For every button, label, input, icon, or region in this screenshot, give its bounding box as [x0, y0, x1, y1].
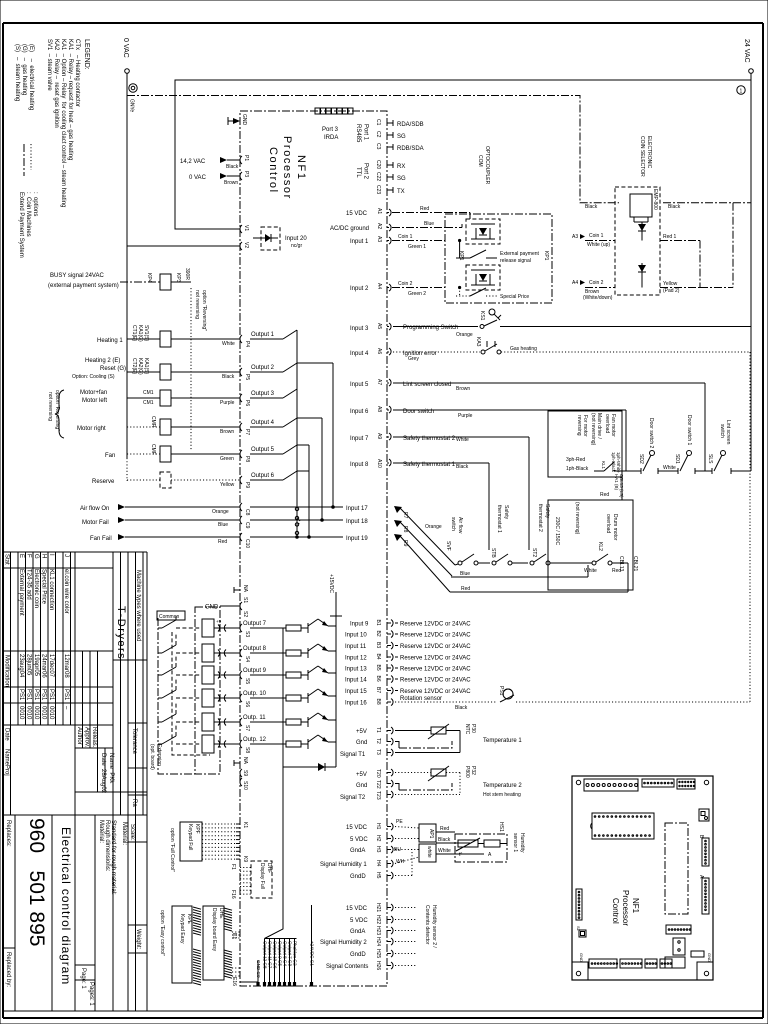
svg-text:ELECTRONIC: ELECTRONIC [646, 136, 652, 169]
svg-text:Red: Red [461, 586, 470, 592]
svg-text:15 VDC: 15 VDC [346, 906, 368, 912]
svg-text:White (up): White (up) [587, 242, 610, 248]
svg-text:Blue: Blue [424, 221, 434, 227]
svg-text:Reserve 12VDC or 24VAC: Reserve 12VDC or 24VAC [400, 656, 471, 662]
wire keypad full bus [202, 823, 236, 825]
svg-text:Reserve 12VDC or 24VAC: Reserve 12VDC or 24VAC [400, 622, 471, 628]
svg-text:Output 7: Output 7 [243, 621, 267, 627]
op-amp U1: NF1 Processor Control box [240, 111, 387, 986]
svg-text:option “Easy control”: option “Easy control” [159, 910, 165, 956]
svg-text:P7: P7 [244, 429, 250, 435]
svg-text:H24: H24 [375, 937, 381, 946]
optocoupler U2 coin1 [466, 219, 500, 244]
svg-text:Door switch 2: Door switch 2 [648, 418, 654, 449]
connector J1 right small [699, 809, 709, 821]
svg-text:Coin 1: Coin 1 [589, 233, 604, 239]
svg-text:23aug04: 23aug04 [18, 654, 24, 678]
svg-text:(opt. board): (opt. board) [149, 744, 155, 770]
wire 24VAC rail [750, 73, 752, 471]
svg-text:Brown: Brown [224, 180, 238, 186]
svg-text:S8: S8 [244, 747, 250, 753]
wire dash-dot coin 0VAC line [127, 96, 619, 203]
svg-text:NA: NA [242, 585, 248, 593]
svg-text:Input 8: Input 8 [350, 462, 369, 468]
transistor Q12 [301, 743, 308, 745]
svg-text:5 VDC: 5 VDC [350, 918, 368, 924]
wire 24VAC top feed [175, 80, 751, 229]
svg-text:Green: Green [220, 456, 234, 462]
svg-text:Standard for rough material:: Standard for rough material: [110, 820, 116, 895]
switch KP2 special price [456, 295, 470, 297]
diode D1 input 20 box [261, 227, 280, 250]
svg-text:B5: B5 [375, 665, 381, 671]
svg-text:A10: A10 [376, 459, 382, 468]
svg-text:Reserve: Reserve [92, 479, 115, 485]
relay contact K12 row Outp. 12 [158, 743, 162, 745]
svg-text:S2: S2 [242, 611, 248, 617]
svg-text:P5: P5 [244, 374, 250, 380]
svg-text:Signal Humidity 1: Signal Humidity 1 [320, 862, 367, 868]
svg-text:Safety: Safety [503, 505, 509, 520]
svg-text:EMP-800: EMP-800 [652, 189, 658, 210]
svg-text:GND G9: GND G9 [256, 960, 261, 978]
svg-text:Air flow: Air flow [457, 517, 463, 534]
switch KP1 external payment release [456, 257, 470, 259]
svg-text:A3: A3 [572, 234, 578, 240]
svg-text:Outp. 12: Outp. 12 [243, 737, 267, 743]
svg-text:KA1 – Relay – request for hea: KA1 – Relay – request for heat – gas hea… [67, 39, 73, 160]
svg-text:V1: V1 [243, 225, 249, 231]
svg-text:T23: T23 [375, 791, 381, 800]
svg-text:SLS: SLS [707, 454, 713, 464]
svg-text:0010: 0010 [33, 706, 39, 720]
svg-text:WH: WH [396, 859, 405, 865]
svg-text:Output 3: Output 3 [251, 391, 275, 397]
svg-text:C3: C3 [375, 143, 381, 150]
svg-text:Input 7: Input 7 [350, 436, 369, 442]
svg-text:Motor Fail: Motor Fail [82, 520, 109, 526]
svg-text:(White/down): (White/down) [583, 295, 613, 301]
svg-text:P1: P1 [243, 155, 249, 161]
svg-text:Input 13: Input 13 [345, 667, 367, 673]
svg-text:15 VDC: 15 VDC [346, 825, 368, 831]
svg-text:Outp. 11: Outp. 11 [243, 715, 266, 721]
svg-text:not reversing: not reversing [194, 290, 200, 319]
svg-text:(not reversing): (not reversing) [574, 502, 580, 535]
svg-text:B7: B7 [375, 687, 381, 693]
svg-text:C9: C9 [244, 522, 250, 529]
svg-text:C8: C8 [244, 509, 250, 516]
svg-text:External payment: External payment [500, 251, 540, 257]
svg-text:Material:: Material: [121, 822, 127, 845]
svg-text:0010: 0010 [41, 706, 47, 720]
svg-text:Purple: Purple [458, 413, 473, 419]
wire ribbon cable KPE-DHE [193, 907, 201, 909]
svg-text:GND: GND [579, 953, 584, 962]
svg-text:H22: H22 [375, 915, 381, 924]
svg-text:Orange: Orange [212, 509, 229, 515]
svg-text:Date: Date [4, 728, 10, 741]
svg-text:Coin 1: Coin 1 [398, 234, 413, 240]
connector left vertical [576, 889, 582, 920]
wire display easy pins [232, 931, 240, 933]
svg-text:RDB/SDA: RDB/SDA [397, 146, 424, 152]
resistor R7 [250, 627, 286, 629]
svg-text:CMF: CMF [150, 444, 156, 455]
svg-text:switch: switch [450, 517, 456, 531]
svg-text:Gas heating: Gas heating [510, 346, 537, 352]
svg-text:Yellow: Yellow [663, 281, 678, 287]
svg-text:NF1: NF1 [295, 155, 307, 181]
svg-text:A9: A9 [376, 433, 382, 439]
svg-text:(E) – electrical heating: (E) – electrical heating [28, 44, 34, 110]
svg-text:Display Full: Display Full [259, 863, 265, 889]
svg-text:GND: GND [241, 114, 247, 126]
svg-text:Input 19: Input 19 [346, 536, 368, 542]
svg-text:S1: S1 [242, 597, 248, 603]
svg-text:E: E [18, 554, 24, 558]
svg-text:A6: A6 [376, 348, 382, 354]
keypad KPE box [172, 906, 192, 983]
svg-text:SVF: SVF [445, 541, 451, 551]
svg-text:Contents detector: Contents detector [424, 905, 430, 945]
keypad KPF box [180, 822, 202, 861]
svg-text:(G) – gas heating: (G) – gas heating [21, 44, 27, 95]
diode coin2 in selector [641, 263, 643, 275]
svg-text:Black: Black [668, 204, 681, 210]
svg-text:Drum motor: Drum motor [612, 514, 618, 541]
svg-text:A4: A4 [376, 283, 382, 289]
switch KS1 key switch [480, 325, 484, 329]
svg-text:Red 1: Red 1 [663, 234, 677, 240]
resistor R8 [250, 652, 286, 654]
svg-text:–: – [63, 706, 69, 710]
svg-text:Door switch 1: Door switch 1 [686, 415, 692, 446]
svg-text:: options: : options [32, 192, 38, 216]
svg-text:KS1: KS1 [479, 311, 485, 321]
diode coin1 in selector [641, 222, 643, 234]
svg-text:ST2: ST2 [531, 548, 537, 557]
svg-text:Output 8: Output 8 [243, 646, 267, 652]
svg-text:Blue: Blue [460, 571, 470, 577]
transistor Q11 [301, 721, 308, 723]
resistor R10 [250, 697, 286, 699]
svg-text:Input 11: Input 11 [345, 644, 367, 650]
svg-text:thermostat 1: thermostat 1 [496, 505, 502, 533]
svg-text:Black: Black [438, 837, 451, 843]
svg-text:Air flow On: Air flow On [80, 506, 109, 512]
wire ribbon cable DHE to pins [224, 908, 232, 910]
svg-text:Input 15: Input 15 [345, 689, 367, 695]
svg-text:Pages: 1: Pages: 1 [88, 982, 94, 1006]
svg-text:IRDA: IRDA [324, 135, 338, 141]
svg-text:Programming Switch: Programming Switch [403, 325, 458, 331]
svg-text:24mar06: 24mar06 [41, 654, 47, 678]
svg-text:PE: PE [396, 819, 403, 825]
transistor Q10 [301, 697, 308, 699]
svg-text:Grey: Grey [408, 356, 419, 362]
svg-text:GND: GND [707, 953, 712, 962]
svg-text:nc/gr: nc/gr [291, 243, 302, 249]
small part S1 [579, 930, 586, 937]
svg-text:CBL21: CBL21 [632, 556, 638, 572]
svg-text:S9: S9 [242, 770, 248, 776]
pins NA S9 S10 [234, 762, 240, 764]
svg-text:A8: A8 [376, 406, 382, 412]
svg-text:Reserve 12VDC or 24VAC: Reserve 12VDC or 24VAC [400, 644, 471, 650]
svg-text:Port 3: Port 3 [322, 127, 339, 133]
svg-text:TTL: TTL [355, 167, 361, 178]
svg-text:PS1: PS1 [18, 689, 24, 701]
box drum motor overload KL2 [548, 500, 633, 590]
svg-text:V2: V2 [243, 242, 249, 248]
svg-text:A1: A1 [376, 208, 382, 214]
svg-text:PS1: PS1 [48, 689, 54, 701]
svg-text:Brown: Brown [456, 386, 470, 392]
svg-text:Signal T2: Signal T2 [340, 795, 366, 801]
svg-text:GndA: GndA [350, 929, 365, 935]
wire 0VAC rail vertical [126, 73, 128, 246]
pin V1 [240, 225, 242, 233]
common contact block [195, 607, 220, 774]
resistor R12 [250, 743, 286, 745]
pin NA S1 [234, 589, 240, 591]
svg-text:S1: S1 [576, 926, 581, 932]
ground GND pin [233, 118, 240, 124]
svg-text:GndD: GndD [350, 874, 366, 880]
svg-text:B1: B1 [375, 620, 381, 626]
svg-text:H23: H23 [375, 926, 381, 935]
small connector [691, 951, 704, 957]
PCB board NF1 layout [572, 776, 713, 980]
svg-text:E1: E1 [231, 933, 237, 939]
svg-text:Reserve 12VDC or 24VAC: Reserve 12VDC or 24VAC [400, 667, 471, 673]
svg-text:option “Full Control”: option “Full Control” [169, 828, 175, 872]
svg-text:HA1 (B): HA1 (B) [614, 474, 619, 491]
display DHE box [203, 906, 224, 980]
svg-text:DHE: DHE [218, 908, 224, 919]
svg-text:Replaces:: Replaces: [5, 820, 11, 847]
svg-text:NA: NA [242, 757, 248, 765]
svg-text:Input 2: Input 2 [350, 286, 369, 292]
svg-text:Input 3: Input 3 [350, 326, 369, 332]
svg-text:GndA: GndA [350, 848, 365, 854]
svg-text:0 VAC: 0 VAC [189, 175, 207, 181]
brace option reversing [55, 390, 64, 438]
svg-text:K1: K1 [242, 822, 248, 828]
svg-text:sensor 1: sensor 1 [512, 833, 518, 852]
svg-text:B2: B2 [375, 631, 381, 637]
svg-text:S5: S5 [244, 678, 250, 684]
svg-text:T-Dryers: T-Dryers [115, 606, 127, 660]
svg-text:S7: S7 [244, 725, 250, 731]
svg-text:+5V: +5V [356, 729, 367, 735]
node junction circles [295, 507, 298, 510]
svg-text:White: White [222, 341, 235, 347]
svg-text:0010: 0010 [26, 706, 32, 720]
svg-text:Rotation sensor: Rotation sensor [400, 696, 442, 702]
svg-text:24 VAC: 24 VAC [743, 39, 750, 63]
relay contact K7 row Output 7 [158, 627, 162, 629]
svg-text:Black: Black [226, 164, 239, 170]
svg-text:Input 17: Input 17 [346, 506, 368, 512]
svg-text:RS485: RS485 [355, 124, 361, 143]
svg-text:KA2 – Relay – reset gas igni: KA2 – Relay – reset gas ignition [53, 39, 59, 128]
svg-text:Purple: Purple [220, 400, 235, 406]
svg-text:SD2: SD2 [638, 454, 644, 464]
svg-text:release signal: release signal [500, 258, 531, 264]
svg-text:Input 14: Input 14 [345, 678, 367, 684]
svg-text:Replaced by:: Replaced by: [5, 952, 11, 987]
wire opto connections [445, 212, 470, 214]
revision table grid [3, 552, 147, 1011]
svg-text:(not reversing): (not reversing) [590, 413, 596, 446]
title block [3, 815, 116, 1011]
svg-text:reversing: reversing [576, 415, 582, 436]
svg-text:Signal Contents: Signal Contents [326, 964, 368, 970]
svg-text:0 VAC: 0 VAC [122, 38, 129, 58]
svg-text:Control: Control [611, 898, 620, 924]
transistor Q7 [301, 627, 308, 629]
svg-text:TX: TX [397, 189, 405, 195]
svg-text:H1: H1 [375, 823, 381, 830]
svg-text:Input 12: Input 12 [345, 656, 367, 662]
svg-text:Reset (G): Reset (G) [100, 366, 126, 372]
svg-text:Black: Black [455, 705, 468, 711]
optocoupler box [445, 214, 552, 303]
wire output bundle to connector G [265, 767, 284, 939]
box motor overload KL1 [548, 411, 622, 477]
svg-text:P3: P3 [243, 171, 249, 177]
svg-text:Electrical control diagram: Electrical control diagram [59, 827, 73, 985]
svg-text:not reversing: not reversing [47, 392, 53, 421]
wire display full bus [240, 867, 251, 869]
svg-text:28jun05: 28jun05 [26, 654, 32, 676]
svg-text:+5V: +5V [356, 772, 367, 778]
svg-text:T2: T2 [375, 738, 381, 744]
svg-text:K9: K9 [242, 856, 248, 862]
svg-text:Input 10: Input 10 [345, 633, 367, 639]
svg-text:H5: H5 [375, 872, 381, 879]
svg-text:Output 8 G4: Output 8 G4 [282, 941, 287, 966]
resistor R9 [250, 674, 286, 676]
transistor Q8 [301, 652, 308, 654]
svg-text:Output 7 G3: Output 7 G3 [287, 941, 292, 966]
symbol circled 1 [737, 86, 745, 94]
svg-text:F: F [26, 554, 32, 558]
svg-text:Hot stem heating: Hot stem heating [483, 792, 521, 798]
relay contact K10 row Outp. 10 [158, 697, 162, 699]
humidity sensor HS1 box [455, 834, 507, 862]
svg-text:AC/DC ground: AC/DC ground [330, 226, 369, 232]
svg-text:Special Price: Special Price [41, 569, 47, 605]
svg-text:Coin 2: Coin 2 [589, 280, 604, 286]
relay contact K11 row Outp. 11 [158, 721, 162, 723]
svg-text:PS1: PS1 [41, 689, 47, 701]
svg-text:Control: Control [267, 147, 279, 194]
svg-text:+15VDC: +15VDC [328, 574, 334, 593]
svg-text:Input 1: Input 1 [350, 239, 369, 245]
svg-text:19apr05: 19apr05 [33, 654, 39, 677]
ground symbol GNYe [129, 84, 137, 92]
svg-text:Output 1: Output 1 [251, 332, 275, 338]
svg-text:Fan: Fan [105, 453, 115, 459]
svg-text:H26: H26 [375, 961, 381, 970]
svg-text:1ph-Black: 1ph-Black [566, 466, 589, 472]
connector Port 3 IRDA [315, 108, 353, 141]
svg-text:KP1: KP1 [543, 251, 549, 261]
svg-text:Special Price: Special Price [500, 294, 529, 300]
connector X1 top long [584, 779, 638, 791]
svg-text:Blue: Blue [218, 522, 228, 528]
svg-text:STB: STB [490, 548, 496, 558]
svg-text:Keypad Full: Keypad Full [187, 824, 193, 850]
svg-text:H2: H2 [375, 835, 381, 842]
svg-text:(Pad 2): (Pad 2) [663, 288, 680, 294]
wire option reversing dotted vertical [190, 288, 192, 451]
svg-text:B3: B3 [375, 642, 381, 648]
svg-text:White: White [456, 437, 469, 443]
svg-text:Extension: Extension [156, 744, 162, 766]
svg-text:NTC: NTC [464, 724, 470, 735]
svg-text:PhaMon G2: PhaMon G2 [292, 941, 297, 966]
svg-text:Reserve 12VDC or 24VAC: Reserve 12VDC or 24VAC [400, 633, 471, 639]
svg-text:Processor: Processor [281, 136, 293, 200]
svg-text:KP4: KP4 [146, 273, 152, 283]
svg-text:SG: SG [397, 176, 406, 182]
svg-text:PS1: PS1 [498, 686, 504, 696]
svg-text:Orange: Orange [456, 332, 473, 338]
svg-text:overload: overload [605, 514, 611, 533]
relay KP1 busy signal row [48, 268, 191, 290]
svg-text:GndD: GndD [350, 952, 366, 958]
svg-text:(external payment system): (external payment system) [48, 283, 119, 289]
svg-text:Output 2: Output 2 [251, 365, 275, 371]
svg-text:Option: Cooling (S): Option: Cooling (S) [72, 374, 115, 380]
svg-text:+9: +9 [216, 619, 222, 624]
svg-text:CBL13: CBL13 [618, 556, 624, 572]
svg-text:Temperature 2: Temperature 2 [483, 783, 522, 789]
svg-text:A: A [488, 852, 492, 858]
wire chain returns [612, 562, 628, 564]
svg-text:Green 1: Green 1 [408, 244, 426, 250]
svg-text:P9: P9 [244, 482, 250, 488]
svg-text:Input 16: Input 16 [345, 701, 367, 707]
svg-text:: Coin Machines: : Coin Machines [25, 192, 31, 237]
svg-text:KA3: KA3 [475, 337, 481, 347]
svg-text:Heating 1: Heating 1 [97, 338, 123, 344]
svg-text:Output 11 G7: Output 11 G7 [267, 941, 272, 969]
svg-text:PS1: PS1 [63, 689, 69, 701]
svg-text:Brown: Brown [220, 429, 234, 435]
svg-text:Name PKk: Name PKk [108, 753, 114, 784]
IC U10 [592, 813, 654, 839]
svg-text:Green 2: Green 2 [408, 291, 426, 297]
svg-text:COIN SELECTOR: COIN SELECTOR [639, 136, 645, 177]
svg-text:PS1: PS1 [33, 689, 39, 701]
pin V2 wire to 0VAC [127, 245, 240, 247]
svg-text:Motor+fan: Motor+fan [80, 390, 107, 396]
svg-text:B4: B4 [375, 654, 381, 660]
ribbon cable hatch KPE-DHE [193, 907, 201, 985]
svg-text:BUSY signal 24VAC: BUSY signal 24VAC [50, 273, 104, 279]
svg-text:S3: S3 [244, 631, 250, 637]
svg-text:switch: switch [719, 424, 725, 438]
svg-text:option “Reversing”: option “Reversing” [54, 390, 60, 431]
svg-text:Motor right: Motor right [77, 426, 106, 432]
svg-text:Port 1: Port 1 [363, 124, 369, 141]
svg-text:230C / 150C: 230C / 150C [554, 517, 560, 545]
